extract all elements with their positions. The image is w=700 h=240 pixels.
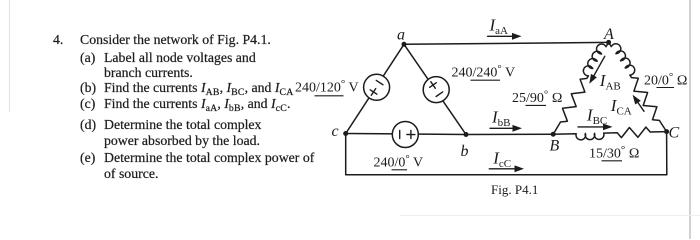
- svg-text:IcC: IcC: [492, 149, 511, 171]
- svg-text:25/90° Ω: 25/90° Ω: [512, 89, 563, 107]
- svg-text:c: c: [332, 123, 339, 140]
- svg-text:IaA: IaA: [489, 16, 509, 38]
- svg-text:IAB: IAB: [599, 71, 621, 93]
- svg-text:240/0° V: 240/0° V: [374, 153, 424, 171]
- svg-text:20/0° Ω: 20/0° Ω: [644, 71, 688, 89]
- svg-text:B: B: [550, 138, 560, 155]
- svg-text:A: A: [603, 26, 614, 43]
- svg-text:IBC: IBC: [586, 105, 607, 127]
- svg-text:b: b: [461, 143, 469, 160]
- svg-text:15/30° Ω: 15/30° Ω: [589, 144, 640, 162]
- svg-text:ICA: ICA: [610, 96, 632, 118]
- svg-text:C: C: [669, 125, 680, 142]
- svg-text:240/240° V: 240/240° V: [452, 63, 516, 81]
- svg-text:a: a: [397, 27, 405, 44]
- svg-text:IbB: IbB: [491, 108, 511, 130]
- svg-text:Fig. P4.1: Fig. P4.1: [491, 182, 538, 197]
- svg-text:240/120° V: 240/120° V: [295, 78, 359, 96]
